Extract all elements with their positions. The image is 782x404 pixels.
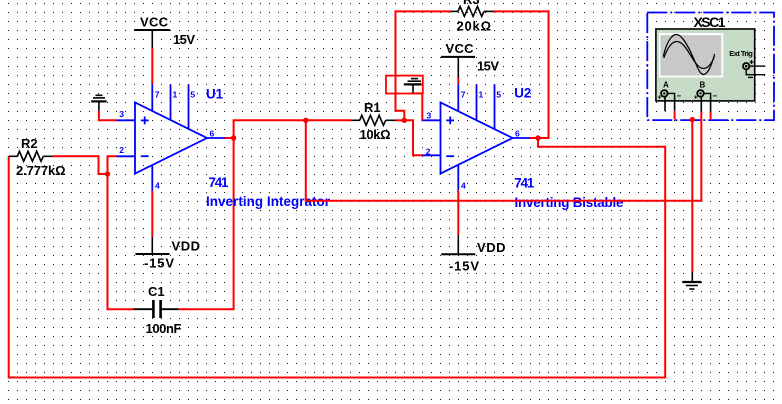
svg-text:6: 6 (515, 128, 520, 138)
junction dot U1 output (231, 135, 236, 140)
svg-text:6: 6 (210, 128, 215, 138)
svg-text:2.777kΩ: 2.777kΩ (16, 163, 66, 178)
wire: scope ground wire down (691, 120, 693, 272)
ground below scope (682, 272, 701, 289)
wire: VCC to U2 pin7 (457, 78, 459, 84)
terminal lead B plus (700, 97, 702, 112)
svg-text:-15V: -15V (144, 255, 174, 270)
resistor R2 (9, 151, 53, 161)
ground at U1 plus input (91, 95, 106, 110)
terminal lead A plus (stub) (664, 97, 666, 111)
svg-text:VCC: VCC (446, 41, 475, 56)
resistor R1 (351, 115, 396, 125)
wire: C1 right up to U1 output node (179, 138, 234, 309)
svg-text:1: 1 (173, 90, 178, 100)
selection box around ground of U2 (386, 76, 423, 94)
svg-text:15V: 15V (173, 32, 195, 47)
waveform curve A (663, 35, 714, 75)
wire: R2 to U1 pin2 with jog (53, 156, 117, 174)
svg-text:U2: U2 (514, 86, 531, 101)
svg-text:−: − (713, 92, 718, 101)
wire: A minus stub (674, 111, 676, 120)
oscilloscope screen (659, 33, 723, 77)
svg-text:5: 5 (496, 90, 501, 100)
VDD symbol U2 (441, 235, 475, 254)
junction dot U2 output (535, 135, 540, 140)
oscilloscope body (656, 29, 755, 101)
svg-text:R1: R1 (364, 100, 381, 115)
svg-text:-15V: -15V (449, 258, 479, 273)
junction dot at R2/C1 node (105, 171, 110, 176)
svg-text:10kΩ: 10kΩ (360, 127, 391, 142)
svg-text:−: − (677, 92, 682, 101)
wire: long horizontal from integrator output node to scope B (306, 112, 702, 201)
wire: ground to U2 pin3 (413, 93, 423, 120)
svg-text:2: 2 (119, 145, 124, 155)
ext trig terminal (743, 60, 765, 77)
svg-text:741: 741 (514, 175, 535, 190)
svg-text:4: 4 (155, 181, 160, 191)
channel A terminal (658, 90, 682, 101)
junction dot at integrator output branch (303, 118, 308, 123)
op-amp U1 (117, 84, 225, 191)
svg-text:VDD: VDD (477, 240, 506, 255)
svg-text:3: 3 (427, 110, 432, 120)
junction dot at U2 input node (402, 118, 407, 123)
oscilloscope XSC1 dashed boundary (647, 13, 774, 121)
ground (flipped) at U2 plus input (404, 79, 422, 94)
svg-text:R3: R3 (463, 0, 480, 7)
svg-text:+: + (658, 94, 662, 101)
wire: U2 pin4 to VDD (457, 190, 459, 235)
svg-text:C1: C1 (148, 284, 165, 299)
svg-text:Ext Trig: Ext Trig (729, 49, 753, 58)
terminal lead A minus (674, 97, 676, 111)
wire: R1 to junction (396, 119, 405, 121)
wire: feedback loop U2 output to R2 (right side down, bottom, left side up) (9, 138, 666, 378)
svg-text:B: B (700, 80, 706, 89)
svg-text:3: 3 (119, 109, 124, 119)
svg-text:20kΩ: 20kΩ (457, 19, 492, 34)
wire: ground to U1 pin3 (99, 111, 117, 121)
svg-text:R2: R2 (21, 136, 38, 151)
VDD symbol U1 (136, 237, 170, 254)
svg-text:741: 741 (209, 175, 230, 190)
svg-text:7: 7 (155, 90, 160, 100)
svg-text:7: 7 (461, 90, 466, 100)
junction dot below scope (690, 117, 695, 122)
terminal lead B minus (710, 97, 712, 112)
wire: B minus stub (710, 112, 712, 120)
capacitor C1 (133, 300, 178, 318)
svg-text:U1: U1 (206, 86, 224, 101)
op-amp U2 (423, 84, 531, 190)
svg-text:VCC: VCC (140, 15, 169, 30)
svg-text:100nF: 100nF (146, 321, 182, 336)
svg-text:XSC1: XSC1 (694, 14, 726, 30)
resistor R3 (feedback 20k) (451, 6, 494, 16)
svg-text:+: + (694, 94, 698, 101)
svg-text:A: A (663, 80, 669, 89)
wire: R3 right leg down to U2 output node (494, 11, 549, 138)
wire: node to capacitor C1 left (108, 174, 134, 309)
wire: U1 pin4 to VDD (151, 191, 153, 237)
svg-text:15V: 15V (477, 58, 499, 73)
wire: VCC to U1 pin7 (151, 48, 153, 84)
svg-text:VDD: VDD (172, 239, 201, 254)
VCC symbol U1 (134, 30, 170, 48)
wire: R3 left leg down to U2 input node (396, 11, 451, 120)
svg-text:5: 5 (190, 90, 195, 100)
wire: U2 output pin to node (530, 137, 538, 139)
svg-text:1: 1 (479, 90, 484, 100)
VCC symbol U2 (441, 57, 475, 78)
waveform curve B (664, 42, 715, 69)
svg-text:Inverting Bistable: Inverting Bistable (515, 195, 624, 210)
wire: U1 output to node and up over to R1 (225, 120, 352, 138)
wire: junction to U2 pin2 with jog (404, 120, 422, 155)
svg-text:2: 2 (426, 146, 431, 156)
channel B terminal (694, 90, 718, 101)
svg-text:4: 4 (461, 181, 466, 191)
